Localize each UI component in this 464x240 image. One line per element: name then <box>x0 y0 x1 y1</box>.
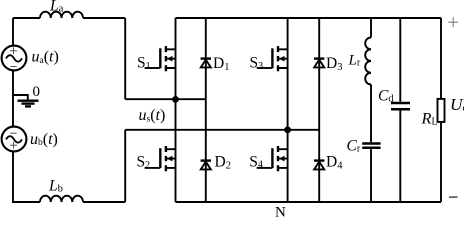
svg-text:N: N <box>275 205 286 218</box>
svg-text:S1: S1 <box>137 55 151 72</box>
wire: RL branch upper lead <box>440 18 442 99</box>
wire: diode column D3/D4 <box>318 18 320 202</box>
svg-text:S2: S2 <box>137 154 151 171</box>
wire: La to left input vertical <box>83 17 125 19</box>
svg-text:D2: D2 <box>215 154 231 172</box>
wire: between ua and ub sources <box>12 70 14 127</box>
capacitor Cr <box>362 142 380 145</box>
wire: ub bottom lead down to bottom-left wire <box>13 151 40 202</box>
svg-text:D4: D4 <box>326 154 343 172</box>
wire: Lr to Cr <box>370 85 372 143</box>
wire: Lb to right input vertical <box>83 201 125 203</box>
transistor S1 <box>145 46 176 71</box>
inductor La <box>40 12 83 18</box>
transistor S4 <box>257 146 288 171</box>
wire: RL to bottom rail <box>440 122 442 202</box>
svg-text:Lr: Lr <box>348 52 361 68</box>
ac source ua <box>2 46 27 71</box>
diode D4 <box>314 161 324 170</box>
transistor S3 <box>257 46 288 71</box>
svg-text:S3: S3 <box>250 55 264 72</box>
svg-text:S4: S4 <box>249 153 263 170</box>
svg-text:D3: D3 <box>326 55 342 73</box>
wire: left input vertical down to node A horizontal <box>124 18 126 99</box>
wire: leg1 vertical S1/S2 <box>175 18 177 202</box>
wire: Cr to bottom rail <box>370 149 372 202</box>
svg-text:us(t): us(t) <box>139 107 166 124</box>
svg-text:Lb: Lb <box>48 177 63 194</box>
diode D2 <box>201 161 211 170</box>
transistor S2 <box>145 146 176 171</box>
svg-text:ua(t): ua(t) <box>32 49 59 66</box>
ac source ub <box>2 127 27 152</box>
wire: Cd to bottom rail <box>399 111 401 203</box>
diode D3 <box>314 59 324 68</box>
svg-text:Cd: Cd <box>378 88 394 105</box>
inductor Lr <box>365 38 371 85</box>
wire: source ua top lead <box>12 18 14 46</box>
wire: Lr/Cr branch upper lead <box>370 18 372 38</box>
wire: top dc rail <box>176 17 442 19</box>
svg-text:La: La <box>49 0 64 15</box>
svg-text:D1: D1 <box>213 55 229 73</box>
svg-text:Ud: Ud <box>450 95 464 114</box>
label - output <box>449 196 458 198</box>
svg-text:Cr: Cr <box>347 137 361 154</box>
wire: Cd branch upper lead <box>399 18 401 102</box>
wire: diode column D1/D2 <box>205 18 207 202</box>
node A wire: horizontal to leg1 midpoint and D1 anode <box>125 98 206 100</box>
node B junction dot <box>284 126 291 133</box>
svg-text:RL: RL <box>421 108 438 127</box>
svg-text:ub(t): ub(t) <box>30 131 58 148</box>
wire: right input vertical up to node B horizontal <box>124 130 126 202</box>
inductor Lb <box>40 196 83 202</box>
svg-text:0: 0 <box>33 84 41 100</box>
wire: bottom dc rail N <box>176 201 442 203</box>
wire: top-left from source ua to inductor La <box>13 17 40 19</box>
wire: leg2 vertical S3/S4 <box>287 18 289 202</box>
node B wire: horizontal to leg2 midpoint and D3/D4 column <box>125 129 319 131</box>
ground 0 <box>13 95 28 100</box>
diode D1 <box>201 59 211 68</box>
resistor RL <box>438 99 445 122</box>
capacitor Cd <box>391 102 410 105</box>
label + output <box>448 17 458 27</box>
node A junction dot <box>172 96 179 103</box>
